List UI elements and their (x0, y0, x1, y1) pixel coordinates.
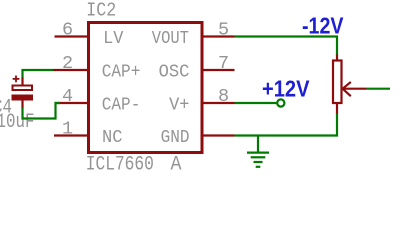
potentiometer R1 bottom lead (336, 103, 338, 115)
svg-text:IC2: IC2 (86, 0, 116, 22)
svg-text:5: 5 (218, 20, 229, 41)
svg-text:6: 6 (62, 20, 73, 41)
wire GND pin to potentiometer bottom (235, 114, 338, 136)
pin 4 wire (CAP-) (55, 102, 90, 104)
pin 1 wire (NC) (54, 134, 90, 136)
wire V+ net stub (235, 102, 278, 104)
svg-text:V+: V+ (169, 95, 189, 116)
svg-text:OSC: OSC (159, 62, 190, 83)
svg-text:10uF: 10uF (0, 111, 35, 134)
svg-text:7: 7 (218, 53, 229, 74)
wire VOUT to potentiometer top (235, 37, 338, 56)
svg-text:-12V: -12V (302, 13, 344, 39)
svg-text:4: 4 (62, 86, 73, 107)
pin 5 wire (VOUT) (201, 35, 235, 37)
svg-text:LV: LV (103, 28, 123, 49)
pin 3 wire (GND) (201, 134, 235, 136)
capacitor C4 top pin stub (21, 78, 23, 86)
svg-text:8: 8 (218, 86, 229, 107)
svg-text:+12V: +12V (262, 76, 310, 102)
svg-text:ICL7660: ICL7660 (86, 154, 154, 174)
svg-text:CAP+: CAP+ (102, 62, 141, 83)
capacitor C4 bottom pin stub (21, 101, 23, 109)
capacitor C4 bottom plate (12, 95, 34, 101)
capacitor C4 top plate (13, 86, 33, 91)
open endpoint circle on V+ net (277, 99, 284, 106)
wire capacitor bottom to IC pin4 (23, 103, 61, 119)
wire from wiper (367, 88, 391, 90)
svg-text:1: 1 (62, 119, 73, 140)
capacitor C4 plus sign (13, 76, 20, 83)
wire IC pin2 net to capacitor top (23, 70, 54, 79)
svg-text:2: 2 (62, 53, 73, 74)
svg-text:NC: NC (102, 127, 123, 148)
potentiometer R1 body (333, 61, 342, 104)
svg-text:VOUT: VOUT (152, 28, 189, 49)
IC IC2 body (89, 23, 203, 153)
svg-text:CAP-: CAP- (102, 95, 141, 116)
svg-text:GND: GND (161, 127, 190, 148)
potentiometer R1 top lead (336, 55, 338, 62)
potentiometer R1 wiper arrow (343, 82, 367, 96)
pin 2 wire (CAP+) (53, 69, 90, 71)
pin 8 wire (V+) (201, 102, 235, 104)
svg-text:A: A (171, 154, 182, 174)
pin 6 wire (LV) (55, 35, 91, 37)
pin 7 wire (OSC) (201, 69, 235, 71)
ground symbol (247, 136, 269, 167)
